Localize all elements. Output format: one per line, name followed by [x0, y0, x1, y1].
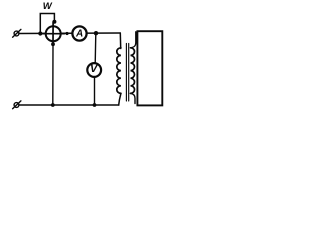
wire bottom horizontal	[19, 104, 119, 106]
node voltmeter-top junction	[94, 31, 98, 35]
wire secondary bottom lead	[131, 93, 136, 103]
transformer core	[126, 44, 128, 102]
node wattmeter-right dot	[65, 32, 68, 35]
ammeter A	[72, 26, 86, 40]
wire voltmeter branch upper	[94, 33, 97, 64]
wire secondary top lead	[131, 32, 136, 48]
wire top-right corner down to primary	[119, 33, 121, 49]
node loop-right junction	[52, 20, 56, 24]
load rectangle (secondary device)	[137, 31, 162, 105]
transformer primary winding	[117, 48, 121, 94]
terminal top-left	[13, 29, 21, 37]
wire wattmeter voltage-coil loop	[40, 14, 54, 34]
voltmeter V	[87, 63, 101, 77]
node voltmeter-bottom junction	[93, 103, 97, 107]
node loop-left junction	[38, 31, 42, 35]
svg-text:W: W	[43, 1, 53, 12]
wire primary bottom lead	[119, 93, 121, 105]
wattmeter W	[40, 22, 64, 45]
transformer secondary winding	[131, 48, 135, 94]
node wattmeter-bottom junction	[51, 103, 55, 107]
terminal bottom-left	[13, 101, 21, 109]
wire top horizontal	[19, 32, 120, 35]
wire voltmeter branch lower	[94, 76, 96, 105]
node below wattmeter	[51, 42, 55, 46]
wire wattmeter to bottom	[52, 45, 54, 105]
svg-text:A: A	[75, 28, 83, 39]
